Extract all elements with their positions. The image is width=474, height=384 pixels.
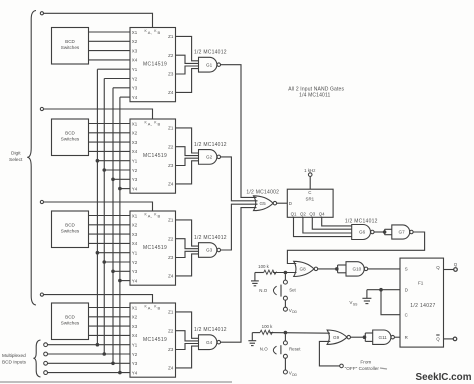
svg-text:1/2 MC14002: 1/2 MC14002 bbox=[246, 190, 279, 196]
junction dot G11 inputs bbox=[363, 335, 367, 339]
NAND gate G11 (inverter) bbox=[373, 330, 395, 344]
svg-text:Y4: Y4 bbox=[132, 278, 138, 283]
terminal From OFF Controller bbox=[340, 364, 344, 368]
wire G10 output to F1 S input bbox=[368, 268, 400, 270]
svg-text:Set: Set bbox=[289, 288, 296, 293]
note: All 2 Input NAND Gates 1/4 MC14011 bbox=[288, 87, 344, 99]
svg-text:"OFF" Controller: "OFF" Controller bbox=[345, 366, 380, 371]
MC14519 block 1 pin labels X1-X4 Y1-Y4 bbox=[132, 30, 138, 100]
BCD switches box block 2 bbox=[52, 119, 89, 156]
digit select terminal 3 bbox=[40, 200, 43, 203]
digit select terminal 2 bbox=[40, 107, 43, 110]
digit select terminal 1 bbox=[40, 12, 43, 15]
svg-text:,: , bbox=[151, 30, 152, 35]
svg-text:DD: DD bbox=[292, 310, 297, 314]
svg-text:X2: X2 bbox=[132, 223, 138, 228]
label Reset bbox=[289, 347, 301, 352]
svg-text:BCD Inputs: BCD Inputs bbox=[2, 359, 27, 364]
wire digit select 2 to KA/KB bbox=[44, 109, 153, 119]
ground symbol VSS bbox=[362, 290, 371, 304]
svg-text:1/2 MC14012: 1/2 MC14012 bbox=[194, 50, 227, 56]
wire G1 output to G5 input 1 bbox=[221, 65, 257, 198]
BCD switches box block 1 bbox=[52, 28, 89, 65]
svg-text:Digit: Digit bbox=[11, 151, 21, 157]
svg-text:MC14519: MC14519 bbox=[143, 61, 167, 67]
wire clock to SR1 C bbox=[309, 176, 311, 189]
svg-text:Switches: Switches bbox=[61, 137, 80, 142]
wire resistor to G9 input bbox=[269, 332, 330, 335]
junction dots Y bus block 4 bbox=[96, 343, 122, 375]
multiplexed BCD input terminals bbox=[44, 343, 48, 375]
wire G11 output to F1 R input bbox=[394, 336, 400, 338]
wire digit select 4 to KA/KB bbox=[44, 295, 153, 303]
svg-text:D: D bbox=[405, 288, 408, 293]
svg-text:Z2: Z2 bbox=[168, 236, 174, 241]
SR1 labels C SR1 D bbox=[289, 190, 315, 206]
NOR gate G8 bbox=[294, 261, 318, 276]
svg-text:Z3: Z3 bbox=[168, 163, 174, 168]
wire G5 output to SR1 D bbox=[277, 202, 288, 204]
svg-text:S: S bbox=[405, 267, 408, 272]
svg-text:X4: X4 bbox=[132, 149, 138, 154]
digit select terminal 4 bbox=[40, 293, 43, 296]
svg-text:Z1: Z1 bbox=[168, 218, 174, 223]
svg-text:X4: X4 bbox=[132, 58, 138, 63]
wire F1 Q output bbox=[444, 269, 454, 271]
svg-text:Y4: Y4 bbox=[132, 95, 138, 100]
svg-text:SeekIC.com: SeekIC.com bbox=[416, 372, 472, 383]
wire reset node to switch bbox=[284, 334, 286, 341]
terminal Q output bbox=[454, 262, 458, 271]
scan artifact bottom smudge bbox=[0, 381, 232, 383]
svg-text:X3: X3 bbox=[132, 140, 138, 145]
svg-text:1/2 MC14012: 1/2 MC14012 bbox=[194, 235, 227, 241]
svg-text:B: B bbox=[158, 30, 161, 35]
svg-text:Y2: Y2 bbox=[132, 168, 138, 173]
NAND gate G10 (inverter) bbox=[346, 262, 368, 276]
svg-text:X2: X2 bbox=[132, 315, 138, 320]
wire G9 output to G11 inputs bbox=[351, 336, 365, 338]
svg-text:100 k: 100 k bbox=[262, 324, 274, 329]
junction dot D-C tie bbox=[379, 288, 383, 292]
svg-text:Z1: Z1 bbox=[168, 310, 174, 315]
svg-text:R: R bbox=[405, 335, 408, 340]
digit select brace bbox=[27, 11, 36, 306]
wire fork to G10 bbox=[338, 265, 346, 273]
svg-text:G1: G1 bbox=[206, 62, 213, 67]
wire G4 output to G5 input 4 bbox=[221, 208, 257, 343]
svg-text:Q: Q bbox=[454, 262, 458, 267]
wires Y1-Y4 block 1 from bus bbox=[97, 69, 130, 97]
pushbutton switch Reset N.O. bbox=[273, 341, 287, 358]
wires Z1-Z4 block 4 to gate G4 bbox=[176, 312, 199, 368]
MC14519 block 2 pin labels Z1-Z4 bbox=[168, 126, 174, 187]
NAND gate G4 1/2 MC14012 bbox=[199, 335, 221, 350]
svg-text:Z4: Z4 bbox=[168, 366, 174, 371]
svg-text:Y2: Y2 bbox=[132, 76, 138, 81]
svg-text:G11: G11 bbox=[379, 335, 388, 340]
VDD terminal (set) bbox=[283, 307, 297, 314]
svg-text:Reset: Reset bbox=[289, 347, 301, 352]
svg-text:X1: X1 bbox=[132, 213, 138, 218]
wire G3 output to G5 input 3 bbox=[221, 204, 258, 250]
svg-text:X2: X2 bbox=[132, 39, 138, 44]
svg-text:1/2 MC14012: 1/2 MC14012 bbox=[194, 142, 227, 148]
svg-text:B: B bbox=[158, 214, 161, 219]
wire ground to resistor (reset) bbox=[252, 332, 260, 334]
wires X1-X4 block 1 bbox=[89, 32, 131, 60]
svg-text:X2: X2 bbox=[132, 131, 138, 136]
svg-text:MC14519: MC14519 bbox=[143, 153, 167, 159]
wires Y1-Y4 block 2 from bus bbox=[97, 161, 130, 189]
svg-text:Switches: Switches bbox=[61, 229, 80, 234]
label 1/2 MC14012 for G6 bbox=[345, 219, 378, 225]
ground symbol (reset row) bbox=[248, 333, 256, 346]
svg-text:Z3: Z3 bbox=[168, 255, 174, 260]
wire G2 output to G5 input 2 bbox=[221, 157, 258, 201]
MC14519 block 4 select inputs label KA, KB bbox=[145, 305, 161, 311]
NOR gate G5 1/2 MC14002 bbox=[254, 196, 277, 211]
NAND gate G1 1/2 MC14012 bbox=[199, 57, 221, 72]
shift register SR1 box bbox=[287, 189, 333, 217]
wire ground to resistor (set) bbox=[255, 272, 264, 274]
svg-text:Z2: Z2 bbox=[168, 53, 174, 58]
svg-text:Z4: Z4 bbox=[168, 274, 174, 279]
NOR gate G9 bbox=[327, 330, 350, 344]
VDD terminal (reset) bbox=[283, 370, 297, 377]
terminal Qbar output bbox=[453, 337, 457, 341]
wire D node to C input bbox=[381, 290, 400, 315]
svg-text:D: D bbox=[289, 201, 292, 206]
svg-text:Y4: Y4 bbox=[132, 186, 138, 191]
resistor 100 k (set) bbox=[264, 270, 277, 274]
wire resistor to G8 input bbox=[273, 272, 297, 274]
wires X1-X4 block 4 bbox=[89, 308, 131, 336]
BCD switches box block 3 bbox=[52, 211, 89, 248]
wire switch to VDD terminal (reset) bbox=[284, 358, 286, 370]
NAND gate G2 1/2 MC14012 bbox=[199, 150, 221, 165]
svg-text:X1: X1 bbox=[132, 121, 138, 126]
svg-text:B: B bbox=[158, 122, 161, 127]
svg-text:Y2: Y2 bbox=[132, 352, 138, 357]
svg-text:X3: X3 bbox=[132, 48, 138, 53]
svg-text:Q1: Q1 bbox=[291, 211, 297, 216]
svg-text:,: , bbox=[151, 122, 152, 127]
svg-text:Z1: Z1 bbox=[168, 34, 174, 39]
IC MC14519 block 4 bbox=[130, 303, 176, 377]
svg-text:Z2: Z2 bbox=[168, 328, 174, 333]
svg-text:,: , bbox=[151, 306, 152, 311]
svg-text:G9: G9 bbox=[333, 335, 340, 340]
svg-text:BCD: BCD bbox=[65, 223, 75, 228]
svg-text:Q: Q bbox=[436, 265, 440, 270]
label 1/2 MC14012 for G1 bbox=[194, 50, 227, 56]
svg-text:Y2: Y2 bbox=[132, 260, 138, 265]
label 1/2 MC14012 for G4 bbox=[194, 327, 227, 333]
svg-text:X4: X4 bbox=[132, 241, 138, 246]
SeekIC.com watermark bbox=[416, 372, 472, 383]
label VSS bbox=[349, 300, 358, 306]
svg-text:1/2 14027: 1/2 14027 bbox=[410, 303, 435, 309]
wire G6 output to G7 inputs bbox=[374, 231, 385, 233]
MC14519 block 2 pin labels X1-X4 Y1-Y4 bbox=[132, 121, 138, 191]
clock terminal 1 kHz bbox=[304, 168, 315, 177]
svg-text:Q2: Q2 bbox=[300, 211, 306, 216]
MC14519 block 4 pin labels X1-X4 Y1-Y4 bbox=[132, 305, 138, 375]
MC14519 block 3 pin labels X1-X4 Y1-Y4 bbox=[132, 213, 138, 283]
svg-text:Y3: Y3 bbox=[132, 86, 138, 91]
BCD switches box block 4 bbox=[52, 303, 89, 340]
svg-text:B: B bbox=[158, 306, 161, 311]
svg-text:BCD: BCD bbox=[65, 39, 75, 44]
junction dot reset node bbox=[284, 331, 288, 335]
IC MC14519 block 1 bbox=[130, 28, 176, 102]
svg-text:Y1: Y1 bbox=[132, 251, 138, 256]
wire switch to VDD terminal (set) bbox=[284, 300, 286, 307]
svg-text:1/2 MC14012: 1/2 MC14012 bbox=[345, 219, 378, 225]
svg-text:Y1: Y1 bbox=[132, 159, 138, 164]
svg-text:Z3: Z3 bbox=[168, 72, 174, 77]
wire fork to G7 bbox=[385, 229, 392, 234]
svg-text:1 kHz: 1 kHz bbox=[304, 168, 315, 173]
Y bus vertical wires bbox=[97, 69, 120, 372]
svg-text:1/2 MC14012: 1/2 MC14012 bbox=[194, 327, 227, 333]
svg-text:F1: F1 bbox=[418, 280, 424, 285]
svg-text:X3: X3 bbox=[132, 324, 138, 329]
wires X1-X4 block 3 bbox=[89, 216, 131, 244]
svg-text:N.O: N.O bbox=[260, 347, 268, 352]
label From OFF Controller bbox=[345, 359, 380, 371]
MC14519 block 1 pin labels Z1-Z4 bbox=[168, 34, 174, 95]
svg-text:G10: G10 bbox=[353, 267, 362, 272]
MC14519 block 3 pin labels Z1-Z4 bbox=[168, 218, 174, 279]
svg-text:N.O: N.O bbox=[259, 288, 267, 293]
svg-text:Z1: Z1 bbox=[168, 126, 174, 131]
wire SR1 Q4 to G6 bbox=[322, 217, 352, 226]
wire G8 output to G10 inputs bbox=[318, 268, 337, 270]
NAND gate G7 (inverter) bbox=[392, 225, 413, 239]
svg-text:BCD: BCD bbox=[65, 131, 75, 136]
MC14519 block 1 select inputs label KA, KB bbox=[145, 29, 161, 35]
resistor 100 k (reset) bbox=[260, 330, 273, 334]
MC14519 block 3 select inputs label KA, KB bbox=[145, 213, 161, 219]
label 100 k (set) bbox=[258, 264, 270, 269]
svg-text:Multiplexed: Multiplexed bbox=[2, 353, 26, 358]
svg-text:Switches: Switches bbox=[61, 45, 80, 50]
svg-text:G8: G8 bbox=[300, 267, 307, 272]
wire F1 D to VSS ground bbox=[367, 289, 400, 291]
junction dot set node bbox=[284, 271, 288, 275]
svg-text:G3: G3 bbox=[206, 248, 213, 253]
IC MC14519 block 3 bbox=[130, 211, 176, 285]
svg-text:BCD: BCD bbox=[65, 315, 75, 320]
svg-text:Z3: Z3 bbox=[168, 347, 174, 352]
svg-text:G2: G2 bbox=[206, 155, 213, 160]
wires Y1-Y4 block 4 from bus bbox=[47, 345, 130, 373]
svg-text:,: , bbox=[151, 214, 152, 219]
flip-flop F1 MC14027 box bbox=[400, 258, 444, 347]
label N.O. (set) bbox=[259, 288, 267, 293]
svg-text:Q: Q bbox=[436, 337, 440, 342]
junction dot G7 inputs bbox=[383, 230, 387, 234]
svg-text:Y3: Y3 bbox=[132, 177, 138, 182]
wires X1-X4 block 2 bbox=[89, 124, 131, 152]
svg-text:From: From bbox=[360, 359, 371, 364]
junction dot G10 inputs bbox=[335, 267, 339, 271]
label 1/2 MC14002 bbox=[246, 190, 279, 196]
svg-text:X1: X1 bbox=[132, 30, 138, 35]
label N.O. (reset) bbox=[260, 347, 268, 352]
svg-text:C: C bbox=[308, 190, 311, 195]
wire fork to G11 bbox=[365, 333, 372, 341]
wire SR1 Q1 to G6 bbox=[294, 217, 352, 236]
wires Z1-Z4 block 3 to gate G3 bbox=[176, 220, 199, 276]
svg-text:Y1: Y1 bbox=[132, 67, 138, 72]
wire F1 Qbar output bbox=[444, 338, 454, 340]
IC MC14519 block 2 bbox=[130, 119, 176, 193]
svg-text:C: C bbox=[405, 313, 408, 318]
svg-text:SS: SS bbox=[353, 302, 358, 306]
SR1 pin labels Q1 Q2 Q3 Q4 bbox=[291, 211, 326, 216]
svg-text:X3: X3 bbox=[132, 232, 138, 237]
F1 pin labels S D C R Q Qbar and name bbox=[405, 265, 441, 342]
multiplexed BCD inputs brace bbox=[33, 340, 40, 377]
wire From OFF Controller to G9 input bbox=[319, 341, 339, 366]
svg-text:Switches: Switches bbox=[61, 321, 80, 326]
svg-text:X1: X1 bbox=[132, 305, 138, 310]
svg-text:Z2: Z2 bbox=[168, 144, 174, 149]
NAND gate G3 1/2 MC14012 bbox=[199, 243, 221, 258]
MC14519 block 4 pin labels Z1-Z4 bbox=[168, 310, 174, 371]
svg-text:Z4: Z4 bbox=[168, 182, 174, 187]
pushbutton switch Set N.O. bbox=[273, 280, 287, 300]
label Multiplexed BCD Inputs bbox=[2, 353, 27, 364]
label 100 k (reset) bbox=[262, 324, 274, 329]
svg-text:100 k: 100 k bbox=[258, 264, 270, 269]
label Set bbox=[289, 288, 296, 293]
wire SR1 Q3 to G6 bbox=[312, 217, 351, 229]
svg-text:MC14519: MC14519 bbox=[143, 337, 167, 343]
MC14519 block 2 select inputs label KA, KB bbox=[145, 121, 161, 127]
wires Z1-Z4 block 2 to gate G2 bbox=[176, 128, 199, 184]
label 1/2 MC14012 for G2 bbox=[194, 142, 227, 148]
svg-text:G5: G5 bbox=[260, 201, 267, 206]
svg-text:Q3: Q3 bbox=[309, 211, 315, 216]
svg-text:Y3: Y3 bbox=[132, 269, 138, 274]
svg-text:SR1: SR1 bbox=[306, 197, 315, 202]
ground symbol (set row) bbox=[251, 273, 259, 286]
svg-text:G6: G6 bbox=[359, 230, 366, 235]
svg-text:G7: G7 bbox=[399, 230, 406, 235]
label Digit Select bbox=[9, 151, 23, 164]
label 1/2 MC14012 for G3 bbox=[194, 235, 227, 241]
svg-text:X4: X4 bbox=[132, 333, 138, 338]
wire digit select 3 to KA/KB bbox=[44, 202, 153, 211]
svg-text:DD: DD bbox=[292, 373, 297, 377]
svg-text:Z4: Z4 bbox=[168, 90, 174, 95]
wire set node to switch bbox=[284, 274, 286, 280]
wire G7 output to G8 input bbox=[287, 232, 424, 264]
svg-text:Y1: Y1 bbox=[132, 343, 138, 348]
wire SR1 Q2 to G6 bbox=[303, 217, 352, 233]
svg-text:Select: Select bbox=[9, 157, 23, 163]
wires Z1-Z4 block 1 to gate G1 bbox=[176, 36, 199, 92]
wire digit select 1 to KA/KB bbox=[44, 13, 153, 27]
wires Y1-Y4 block 3 from bus bbox=[97, 253, 130, 281]
svg-text:MC14519: MC14519 bbox=[143, 245, 167, 251]
svg-text:Q4: Q4 bbox=[319, 211, 325, 216]
svg-text:Y4: Y4 bbox=[132, 370, 138, 375]
svg-text:1/4 MC14011: 1/4 MC14011 bbox=[299, 93, 330, 99]
svg-text:G4: G4 bbox=[206, 340, 213, 345]
svg-text:Y3: Y3 bbox=[132, 361, 138, 366]
junction dots Y bus block 3 bbox=[96, 251, 122, 283]
junction dots Y bus block 2 bbox=[96, 159, 122, 191]
NAND gate G6 1/2 MC14012 bbox=[352, 225, 374, 240]
